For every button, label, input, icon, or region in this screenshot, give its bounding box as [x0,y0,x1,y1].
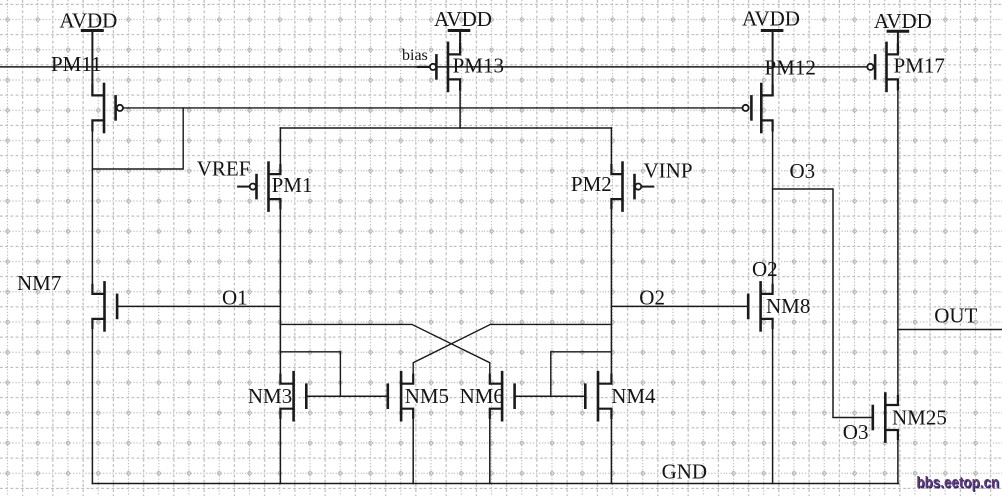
wire NM8 source down to GND rail [772,319,774,484]
wire O2 line PM2 drain to NM8 gate [611,305,748,307]
svg-text:O3: O3 [790,159,816,183]
wire NM5 source down to GND [412,409,414,484]
svg-text:bias: bias [402,47,428,64]
wire PM17 source down to NM25 drain [897,79,899,405]
svg-text:NM7: NM7 [17,271,61,295]
power AVDD bar PM11 [82,31,102,96]
wire PM11 source down to NM7 drain [91,120,93,294]
svg-text:AVDD: AVDD [874,9,932,33]
wire PM1 source up to tail [279,128,281,174]
transistor PM11 (PMOS, gate right) [92,84,123,132]
transistor PM1 (PMOS, gate left) [250,163,281,211]
wire PM1 drain down to NM3 drain [279,199,281,384]
wire VREF gate stub [238,186,250,188]
wire NM5 drain stub and cross-couple diagonal to O2 side [413,324,611,383]
svg-text:NM6: NM6 [460,384,504,408]
svg-text:PM12: PM12 [765,55,816,79]
svg-text:O1: O1 [222,286,248,310]
svg-text:NM5: NM5 [405,384,449,408]
wire NM6 source down to GND [489,409,491,484]
transistor PM12 (PMOS, gate left) [743,84,773,132]
wire NM3 source down to GND [279,409,281,484]
wire tail line PM1-PM2 sources [280,127,611,129]
wire NM4 diode loop [551,352,612,396]
svg-text:AVDD: AVDD [742,7,800,31]
svg-text:GND: GND [662,460,708,484]
wire NM6 gate to NM4 gate [515,395,586,397]
wire O3 branch PM12 drain to NM25 gate [773,189,873,418]
transistor NM6 (NMOS, gate right) [490,372,515,420]
svg-text:PM13: PM13 [453,53,504,77]
transistor NM4 (NMOS, gate left) [585,372,611,420]
wire NM7 source down to GND rail [91,319,93,484]
transistor NM7 (NMOS, gate right) [92,282,117,330]
svg-text:bbs.eetop.cn: bbs.eetop.cn [916,475,999,492]
svg-text:PM2: PM2 [571,172,612,196]
svg-text:NM25: NM25 [892,406,947,430]
wire GND rail [92,483,898,485]
svg-text:O2: O2 [639,286,665,310]
wire NM6 drain stub and cross-couple diagonal to O1 side [280,324,489,383]
wire bias gate stub (thick) into PM13 bubble [418,66,430,68]
wire NM25 source down to GND rail [897,430,899,484]
power AVDD bar PM12 [762,31,782,96]
transistor NM5 (NMOS, gate left) [388,372,413,420]
wire O1 line NM7 gate to PM1 drain [117,305,280,307]
wire bias net long horizontal [0,66,867,68]
svg-text:AVDD: AVDD [59,8,117,32]
svg-text:VREF: VREF [197,157,251,181]
transistor NM8 (NMOS, gate left) [748,282,772,330]
svg-text:NM3: NM3 [248,384,292,408]
svg-text:VINP: VINP [644,158,693,182]
transistor NM3 (NMOS, gate right) [280,372,306,420]
power AVDD bar PM13 [449,31,469,55]
wire PM2 drain down to NM4 drain [610,199,612,384]
svg-text:NM4: NM4 [611,384,656,408]
svg-text:NM8: NM8 [766,294,810,318]
wire VINP gate stub [641,186,653,188]
wire long gate line PM11 to PM12 (y=108) [123,107,743,109]
svg-text:O3: O3 [843,420,869,444]
svg-text:OUT: OUT [934,303,977,327]
wire NM3 gate to NM5 gate [306,395,388,397]
transistor NM25 (NMOS, gate left) [873,394,898,442]
transistor PM17 (PMOS, gate left) [867,43,898,91]
wire PM12 drain down to NM8 drain [772,120,774,294]
power AVDD bar PM17 [888,31,908,54]
svg-text:O2: O2 [752,257,778,281]
svg-text:AVDD: AVDD [434,7,492,31]
transistor PM2 (PMOS, gate right) [611,163,641,211]
wire OUT line [898,329,1002,331]
transistor PM13 (PMOS, gate left) [430,43,460,91]
svg-text:PM17: PM17 [894,53,945,77]
svg-text:PM1: PM1 [272,173,313,197]
wire NM3 diode loop [280,352,340,396]
wire PM2 source up to tail [610,128,612,174]
wire PM13 drain down to tail line [459,79,461,128]
svg-text:PM11: PM11 [51,52,102,76]
wire PM11 drain diode loop [92,108,183,169]
wire NM4 source down to GND [610,409,612,484]
watermark bbs.eetop.cn [916,475,1000,493]
